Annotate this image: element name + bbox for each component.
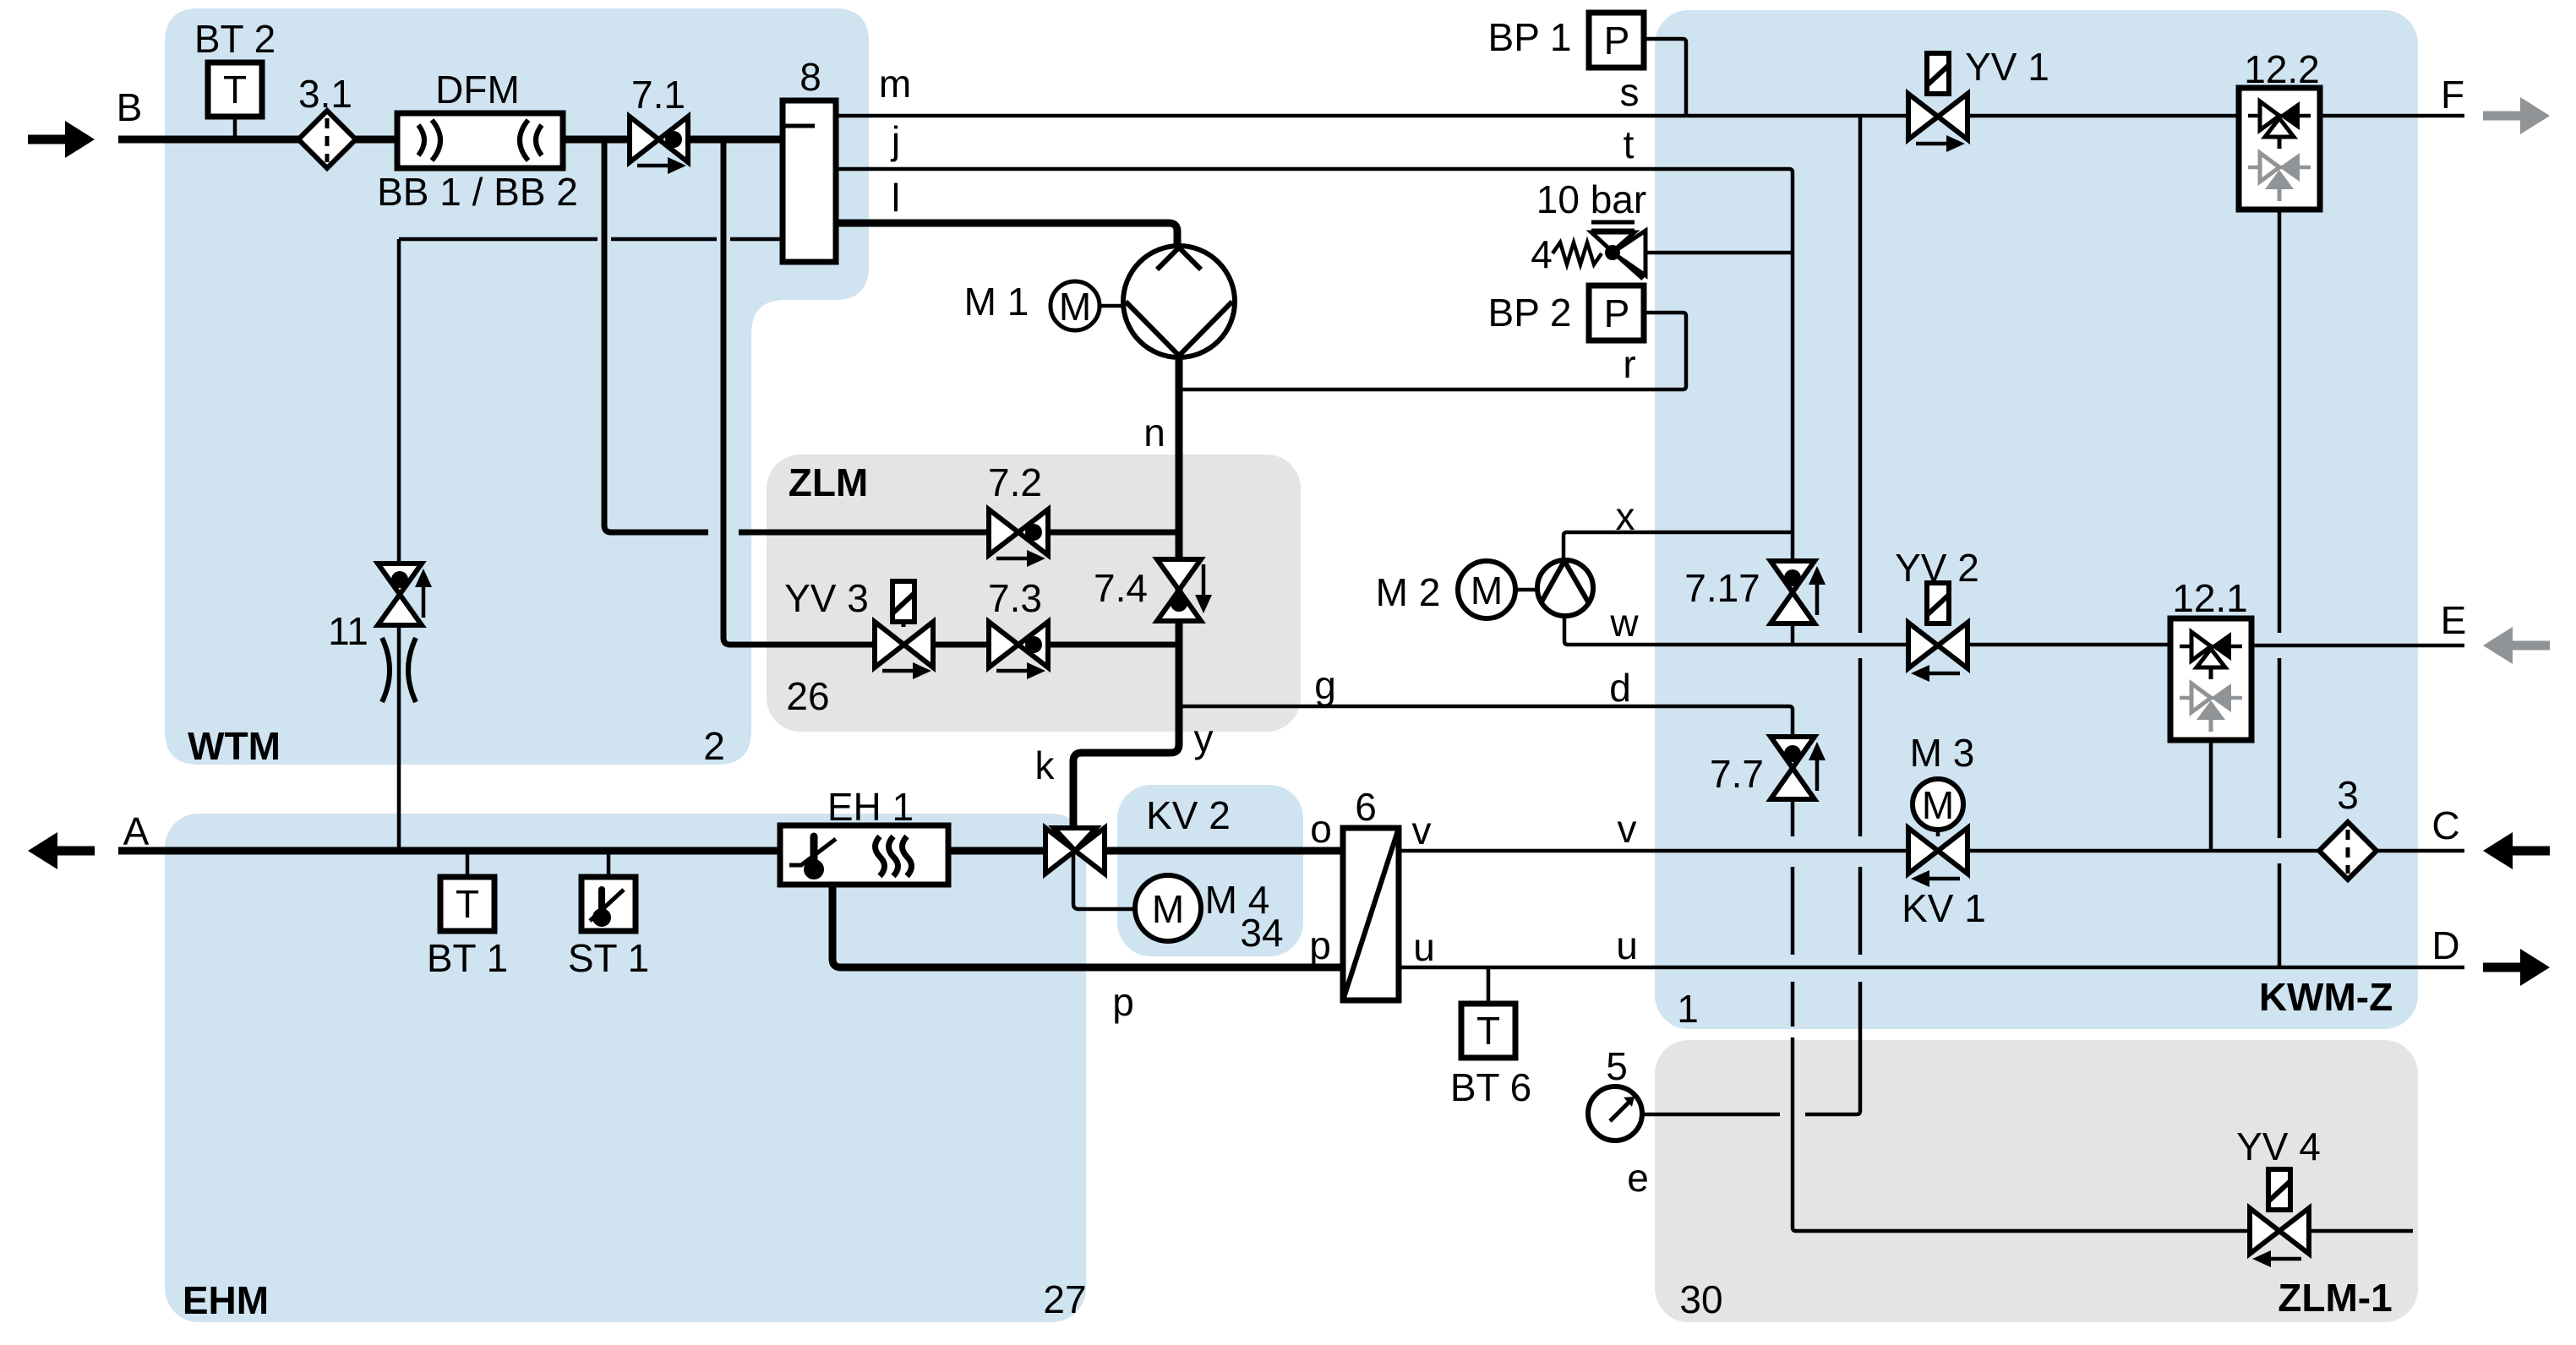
svg-text:YV 3: YV 3	[784, 576, 869, 620]
wire 12.2 drop seg3 to D-line	[2278, 863, 2282, 967]
wire n-line pump M1 down	[1073, 357, 1179, 826]
svg-text:M: M	[1471, 569, 1503, 613]
motor M4 (M circle)	[1135, 875, 1201, 941]
solenoid YV2	[1927, 583, 1949, 623]
valve 7.4 (vertical, dot below, arrow down)	[1157, 559, 1212, 621]
svg-text:EH 1: EH 1	[827, 785, 914, 829]
motor M3 (M circle)	[1913, 779, 1963, 830]
wire BT6 stub	[1487, 967, 1491, 1004]
wire 7.2 valve to n-line	[1048, 530, 1177, 536]
svg-text:YV 1: YV 1	[1965, 45, 2049, 89]
svg-text:3: 3	[2337, 773, 2359, 817]
svg-text:P: P	[1604, 19, 1630, 63]
wire C-line filter 3 to edge	[2376, 849, 2464, 853]
svg-text:p: p	[1309, 923, 1331, 967]
svg-text:v: v	[1412, 809, 1432, 852]
wire YV3 to 7.3 valve	[932, 642, 989, 648]
svg-text:g: g	[1314, 663, 1336, 707]
svg-text:M 3: M 3	[1910, 731, 1975, 775]
check valve unit 12.1 (box)	[2170, 618, 2251, 740]
wire BT1 stub	[466, 851, 470, 877]
wire 7.17 bottom stub	[1791, 623, 1795, 645]
region ZLM (gray)	[767, 455, 1301, 732]
svg-text:w: w	[1609, 601, 1639, 645]
arrow D outlet	[2483, 949, 2550, 986]
wire vertical x=472 to valve 11	[397, 239, 401, 564]
svg-text:j: j	[890, 118, 900, 162]
wire p-line EH1 bottom to HX 6	[832, 885, 1343, 967]
wire B main line left	[118, 136, 299, 144]
pump M2 (circle with triangle up)	[1537, 560, 1593, 616]
wire M3 stub	[1936, 830, 1940, 836]
pump M1 (circle with triangle)	[1123, 246, 1235, 357]
flow meter DFM (box)	[397, 113, 563, 168]
filter 3.1 (diamond)	[298, 111, 356, 168]
wire vertical x=2201 seg1	[1858, 116, 1863, 633]
svg-text:26: 26	[786, 674, 829, 718]
heater EH1 (box with icons)	[780, 825, 948, 885]
svg-text:KWM-Z: KWM-Z	[2259, 975, 2393, 1019]
valve YV3 (arrow right)	[875, 622, 933, 679]
region KV2 (blue small)	[1117, 785, 1303, 956]
wire vertical x=2201 seg2	[1858, 658, 1863, 836]
wire g/d-line n to 7.7	[1177, 706, 1793, 737]
sensor BT6 (T box)	[1461, 1004, 1515, 1058]
svg-text:ZLM: ZLM	[789, 460, 869, 504]
svg-text:ZLM-1: ZLM-1	[2278, 1276, 2392, 1320]
valve 7.3 (dot, arrow right)	[989, 622, 1048, 679]
wire B valve 7.1 to separator 8	[688, 136, 783, 144]
arrow B inlet	[28, 121, 95, 158]
arrow C inlet	[2483, 832, 2550, 869]
wire EH1 to KV2 valve	[948, 847, 1045, 855]
wire vertical branch x=856 from B-line	[723, 139, 875, 645]
wire F-line 12.2 to edge	[2320, 114, 2464, 118]
svg-text:KV 1: KV 1	[1902, 886, 1986, 930]
wire safety valve 4 line	[1645, 251, 1793, 255]
svg-text:d: d	[1609, 666, 1631, 710]
svg-text:BP 1: BP 1	[1488, 15, 1572, 59]
svg-text:7.17: 7.17	[1684, 566, 1760, 610]
wire vertical x=2121 below 7.7 seg4 to YV4 line	[1793, 1037, 2250, 1231]
wire j/t-line separator to corner	[836, 169, 1793, 561]
svg-text:P: P	[1604, 291, 1630, 335]
svg-text:BT 2: BT 2	[194, 17, 276, 61]
svg-text:M: M	[1059, 285, 1091, 329]
svg-text:M 2: M 2	[1376, 570, 1441, 614]
svg-text:ST 1: ST 1	[568, 936, 649, 980]
svg-text:2: 2	[703, 724, 725, 768]
svg-text:4: 4	[1531, 232, 1553, 276]
wire l-line separator to pump M1	[836, 223, 1177, 246]
valve 7.7 (vertical, dot, arrow up)	[1771, 737, 1826, 799]
svg-text:M: M	[1152, 887, 1184, 931]
svg-text:t: t	[1624, 123, 1635, 166]
wire r-line n to BP2	[1177, 313, 1686, 389]
svg-text:BT 6: BT 6	[1450, 1065, 1531, 1109]
svg-text:7.3: 7.3	[988, 576, 1042, 620]
svg-text:T: T	[1476, 1009, 1500, 1053]
svg-text:k: k	[1035, 743, 1056, 787]
svg-text:x: x	[1616, 494, 1635, 538]
svg-text:WTM: WTM	[188, 724, 281, 768]
svg-text:M 1: M 1	[964, 280, 1029, 324]
svg-text:11: 11	[328, 609, 368, 653]
pressure sensor BP2 (P box)	[1589, 286, 1644, 340]
wire M2 motor link	[1515, 588, 1537, 592]
wire vertical branch x=715 from B-line	[604, 139, 708, 532]
valve KV2 (3-way)	[1045, 828, 1105, 874]
valve YV4 (arrow left)	[2250, 1208, 2309, 1267]
wire gauge 5 line	[1643, 1113, 1780, 1117]
wire BP1 drop	[1644, 39, 1686, 116]
wire u/D-line HX to edge	[1399, 966, 2464, 970]
svg-text:3.1: 3.1	[298, 72, 352, 116]
svg-text:m: m	[879, 62, 911, 106]
wire M2 pump bottom stub to w-line	[1564, 616, 2170, 645]
arrow E inlet (gray)	[2483, 627, 2550, 664]
solenoid YV4	[2268, 1169, 2290, 1210]
wire ST1 stub	[607, 851, 611, 877]
region KWM-Z (blue)	[1655, 10, 2418, 1029]
wire KV2 to M4 motor	[1073, 853, 1135, 909]
svg-text:KV 2: KV 2	[1146, 793, 1231, 837]
separator 8 (box with level line)	[783, 101, 836, 262]
valve YV2 (arrow left)	[1908, 623, 1967, 682]
region ZLM-1 (gray)	[1655, 1040, 2418, 1322]
check valve unit 12.2 (box)	[2239, 88, 2320, 210]
svg-text:6: 6	[1355, 785, 1377, 829]
pressure sensor BP1 (P box)	[1589, 13, 1644, 68]
wire B filter to DFM	[355, 136, 397, 144]
svg-text:YV 2: YV 2	[1895, 546, 1979, 590]
svg-text:BP 2: BP 2	[1488, 291, 1572, 335]
wire YV4 line right part	[2310, 1229, 2413, 1233]
svg-text:27: 27	[1043, 1277, 1086, 1321]
wire branch 7.2 line continue	[739, 530, 989, 536]
sensor BT2 (T box)	[208, 63, 262, 117]
svg-text:34: 34	[1240, 911, 1283, 955]
svg-text:10 bar: 10 bar	[1536, 177, 1646, 221]
wire vertical x=2201 seg4	[1805, 982, 1860, 1114]
svg-text:u: u	[1616, 923, 1638, 967]
valve YV1 (arrow right)	[1908, 94, 1967, 152]
solenoid YV3	[892, 581, 914, 627]
wire vertical x=2121 below 7.7 seg2	[1791, 867, 1795, 955]
wire vertical x=472 valve 11 to A-line	[397, 625, 401, 851]
svg-text:u: u	[1413, 925, 1435, 969]
svg-text:12.1: 12.1	[2172, 576, 2248, 620]
sensor BT1 (T box)	[440, 877, 494, 931]
svg-text:30: 30	[1679, 1277, 1722, 1321]
svg-text:A: A	[123, 809, 150, 853]
svg-text:p: p	[1112, 980, 1134, 1024]
svg-text:F: F	[2441, 73, 2464, 117]
svg-text:e: e	[1627, 1156, 1649, 1200]
motor M1 (M circle)	[1051, 281, 1123, 330]
sensor ST1 (thermostat box)	[581, 877, 636, 931]
svg-text:YV 4: YV 4	[2236, 1124, 2321, 1168]
svg-text:12.2: 12.2	[2244, 47, 2320, 91]
svg-text:D: D	[2431, 923, 2459, 967]
wire BT2 stub	[233, 117, 237, 139]
gauge 5	[1588, 1086, 1642, 1141]
flex connector below valve 11	[382, 638, 416, 702]
wire 12.2 drop seg1	[2278, 211, 2282, 633]
wire E-line 12.1 to edge	[2251, 644, 2464, 648]
wire x-line pump M2 to x=2121	[1564, 532, 1793, 560]
svg-text:B: B	[117, 85, 143, 129]
svg-text:8: 8	[800, 55, 821, 99]
valve 7.2 (dot, arrow right)	[989, 509, 1048, 567]
wire 7.3 valve to n-line	[1048, 642, 1177, 648]
svg-text:y: y	[1194, 716, 1214, 760]
svg-text:T: T	[223, 68, 247, 112]
wire v-line KV1 to filter 3	[1966, 849, 2320, 853]
svg-text:EHM: EHM	[183, 1278, 269, 1322]
svg-text:5: 5	[1606, 1044, 1628, 1088]
svg-text:T: T	[456, 882, 479, 926]
region WTM (blue, stepped shape)	[165, 8, 869, 765]
wire vertical x=2201 seg3	[1858, 867, 1863, 955]
safety valve 4 (10 bar)	[1553, 222, 1645, 279]
region EHM (blue)	[165, 814, 1086, 1322]
svg-text:l: l	[892, 176, 900, 220]
svg-text:1: 1	[1677, 987, 1699, 1031]
svg-text:7.4: 7.4	[1094, 566, 1148, 610]
svg-text:7.2: 7.2	[988, 460, 1042, 504]
wire vertical x=2121 below 7.7 seg3	[1791, 982, 1795, 1026]
arrow A outlet	[28, 832, 95, 869]
svg-text:7.7: 7.7	[1710, 752, 1764, 796]
heat exchanger 6 (box with diagonal)	[1343, 828, 1399, 1000]
wire under-8 line y=283 seg3	[730, 237, 783, 242]
svg-text:o: o	[1310, 807, 1332, 851]
svg-text:M: M	[1922, 783, 1954, 827]
wire 12.1 drop to C-line	[2209, 742, 2213, 851]
svg-text:C: C	[2431, 803, 2459, 847]
wire o-line KV2 to HX 6	[1105, 847, 1343, 855]
wire A-line arrow to EH1	[118, 847, 780, 855]
filter 3 (diamond)	[2319, 822, 2377, 879]
wire B DFM to valve 7.1	[563, 136, 630, 144]
svg-text:BT 1: BT 1	[427, 936, 508, 980]
svg-text:r: r	[1623, 342, 1635, 386]
valve 7.1 (with dot, arrow right)	[630, 117, 688, 174]
wire 12.2 drop seg2	[2278, 658, 2282, 838]
svg-text:n: n	[1143, 411, 1165, 455]
svg-text:s: s	[1620, 70, 1640, 114]
arrow F outlet (gray)	[2483, 97, 2550, 134]
wire under-8 line y=283 seg1	[399, 237, 598, 242]
motor M2 (M circle)	[1458, 561, 1515, 618]
wire m-line separator to 12.2	[836, 114, 2240, 118]
valve KV1 (arrow left)	[1908, 828, 1967, 887]
svg-text:7.1: 7.1	[631, 73, 685, 117]
valve 7.17 (vertical, dot, arrow up)	[1771, 561, 1826, 623]
wire v-line HX to KV1	[1399, 849, 1907, 853]
svg-text:DFM: DFM	[435, 68, 520, 112]
svg-text:BB 1 / BB 2: BB 1 / BB 2	[377, 170, 578, 214]
valve 11 (vertical, dot, arrow up)	[378, 564, 432, 625]
solenoid YV1	[1927, 53, 1949, 94]
svg-text:E: E	[2441, 598, 2467, 642]
svg-text:v: v	[1618, 807, 1637, 851]
wire vertical x=2121 below 7.7 seg1	[1791, 799, 1795, 836]
wire under-8 line y=283 seg2	[611, 237, 717, 242]
